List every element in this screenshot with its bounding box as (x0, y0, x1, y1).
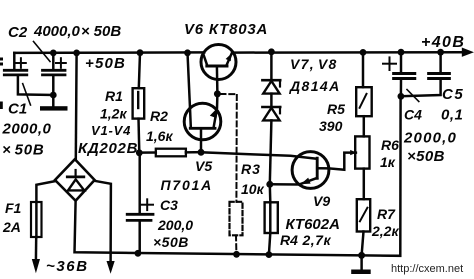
svg-text:R5: R5 (327, 101, 345, 117)
svg-text:+50В: +50В (85, 55, 126, 72)
svg-text:2А: 2А (2, 219, 21, 235)
svg-text:1,6к: 1,6к (146, 128, 173, 144)
svg-text:×50В: ×50В (2, 142, 44, 159)
svg-text:V5: V5 (195, 158, 212, 174)
svg-text:2000,0: 2000,0 (403, 130, 457, 147)
svg-text:10к: 10к (241, 181, 265, 197)
svg-text:КД202В: КД202В (78, 140, 138, 157)
svg-text:R4: R4 (280, 232, 298, 248)
svg-text:1,2к: 1,2к (100, 106, 127, 122)
svg-text:Д814А: Д814А (289, 78, 341, 94)
svg-text:+40В: +40В (421, 34, 465, 51)
svg-text:V1-V4: V1-V4 (91, 123, 131, 138)
svg-text:С3: С3 (160, 197, 178, 213)
svg-text:~36В: ~36В (46, 258, 89, 275)
svg-text:2,2к: 2,2к (371, 223, 399, 239)
svg-text:F1: F1 (5, 200, 22, 216)
svg-text:2000,0: 2000,0 (2, 121, 52, 138)
svg-text:П701А: П701А (161, 177, 214, 193)
svg-text:КТ602А: КТ602А (286, 216, 340, 233)
svg-text:R7: R7 (377, 206, 396, 222)
svg-text:390: 390 (319, 118, 343, 134)
svg-text:С4: С4 (404, 107, 422, 123)
svg-text:V6 КТ803А: V6 КТ803А (184, 21, 268, 38)
svg-text:С2: С2 (8, 24, 28, 41)
svg-text:V7,V8: V7,V8 (290, 56, 338, 72)
svg-text:1к: 1к (380, 154, 396, 170)
svg-text:×50В: ×50В (153, 234, 189, 250)
svg-text:200,0: 200,0 (157, 217, 193, 233)
svg-text:С5: С5 (442, 86, 464, 103)
svg-text:R3: R3 (241, 161, 261, 177)
svg-text:2,7к: 2,7к (302, 232, 332, 248)
svg-text:R2: R2 (150, 108, 168, 124)
svg-text:V9: V9 (313, 193, 330, 209)
svg-text:R6: R6 (381, 137, 399, 153)
svg-text:http://cxem.net: http://cxem.net (391, 263, 463, 275)
svg-text:С1: С1 (8, 101, 27, 118)
svg-text:×50В: ×50В (407, 148, 445, 165)
svg-text:R1: R1 (105, 88, 123, 104)
svg-text:4000,0×50В: 4000,0×50В (33, 23, 121, 40)
svg-text:0,1: 0,1 (441, 107, 463, 124)
